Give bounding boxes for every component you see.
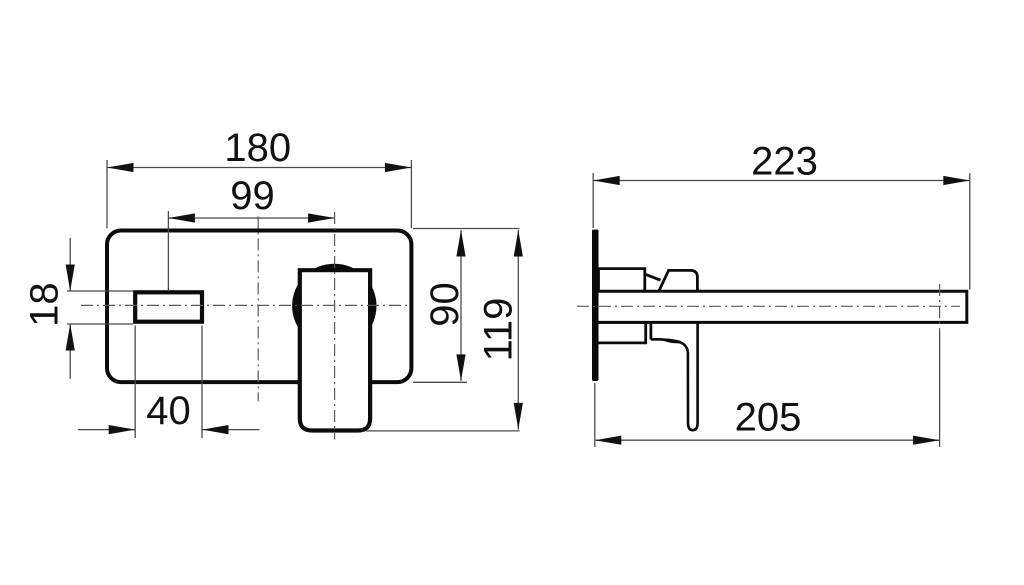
dimension 90: bottom arrowhead [456, 354, 465, 381]
dimension 223: right arrowhead [943, 176, 970, 185]
dimension 18: upper leader line [69, 238, 71, 291]
dimension 180: left arrowhead [107, 163, 134, 172]
dimension 119: bottom extension line [366, 430, 520, 432]
lower valve body (side) [599, 322, 646, 343]
dimension 18: upper arrowhead (pointing down) [66, 265, 75, 292]
vertical centerline of plate [257, 216, 259, 401]
wall plate (side view, filled bar) [592, 230, 599, 382]
dimension 205: extension line left [594, 383, 596, 447]
dimension 180: extension line right [410, 160, 412, 228]
dimension 223: dimension line [593, 180, 970, 182]
upper valve body (side) [599, 269, 645, 292]
lever blade (side, long drop) [688, 322, 698, 430]
dimension 180: right arrowhead [385, 163, 412, 172]
lever cap (side) [659, 270, 698, 291]
lever arm (side, curving down) [651, 339, 688, 351]
dimension 90: bottom extension line [413, 381, 467, 383]
svg-text:180: 180 [224, 126, 291, 170]
handle stem slot line [650, 322, 653, 339]
dimension 18: extension line top [67, 290, 133, 292]
vertical centerline of handle [334, 212, 336, 440]
dimension 90: top extension line (shared) [413, 228, 520, 230]
dimension 99: right arrowhead [308, 213, 335, 222]
dimension 119: dimension line [517, 230, 519, 429]
dimension 40: right leader line [202, 429, 260, 431]
aerator centerline (vertical dash-dot through spout) [939, 284, 941, 331]
dimension 223: extension line right [969, 173, 971, 290]
dimension 40: left arrowhead (outside, pointing right) [109, 425, 136, 434]
small slant between body and lever cap [645, 274, 661, 280]
dimension 99: dimension line [168, 217, 334, 219]
dimension 90: dimension line [460, 230, 462, 381]
svg-text:205: 205 [735, 396, 802, 440]
dimension 18: lower arrowhead (pointing up) [66, 324, 75, 351]
dimension 40: extension line right [201, 326, 203, 439]
mounting plate (front view rounded rectangle) [107, 231, 411, 383]
dimension 40: extension line left [134, 326, 136, 439]
dimension 119: bottom arrowhead [514, 403, 523, 430]
dimension 223: extension line left [592, 173, 594, 228]
dimension 205: right arrowhead [913, 436, 940, 445]
dimension 205: left arrowhead [595, 436, 622, 445]
dimension 180: dimension line [107, 167, 411, 169]
dimension 18: extension line bottom [67, 323, 133, 325]
dimension 90: top arrowhead [456, 230, 465, 257]
dimension 99: extension line left (spout centre) [167, 211, 169, 291]
spout (side view long bar) [599, 291, 967, 322]
dimension 18: lower leader line [69, 324, 71, 379]
handle lever (front view, white over circle) [300, 270, 370, 430]
svg-text:223: 223 [751, 139, 818, 183]
dimension 40: right arrowhead (outside, pointing left) [202, 425, 229, 434]
svg-text:40: 40 [146, 389, 191, 433]
dimension 40: left leader line [78, 429, 135, 431]
dimension 223: left arrowhead [593, 176, 620, 185]
horizontal centerline left view [81, 304, 409, 306]
dimension 119: top arrowhead [514, 230, 523, 257]
dimension 99: left arrowhead [168, 213, 195, 222]
dimension 205: extension line right (from aerator line) [939, 331, 941, 447]
handle escutcheon circle (filled, behind lever) [292, 264, 376, 348]
svg-text:90: 90 [423, 282, 467, 327]
dimension 205: dimension line [595, 439, 940, 441]
svg-text:119: 119 [477, 298, 521, 362]
horizontal centerline right view [577, 305, 960, 307]
svg-text:99: 99 [230, 174, 275, 218]
lever arm bulge [661, 339, 685, 344]
dimension 180: extension line left [106, 160, 108, 228]
svg-text:18: 18 [23, 282, 67, 327]
spout outlet rectangle (front view) [135, 292, 202, 321]
